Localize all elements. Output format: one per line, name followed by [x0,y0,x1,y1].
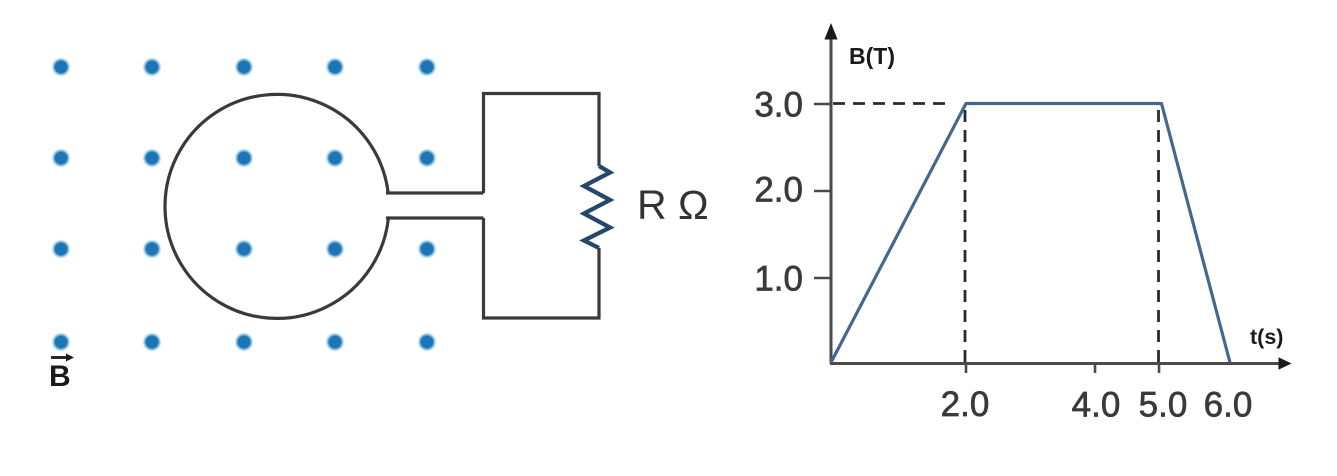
resistor R (zigzag) [584,166,610,248]
y-axis tick 3.0 [814,103,832,106]
y-axis label 2.0 [754,171,803,210]
x-axis label 5.0 [1139,386,1188,425]
axis title B(T) [849,43,895,69]
B-field dots, row 4 [51,332,437,352]
y-axis (B axis) [824,23,837,364]
svg-text:2.0: 2.0 [754,171,803,210]
svg-text:1.0: 1.0 [754,260,803,299]
B-field dots (field out of page), row 1 [51,57,437,77]
x-axis label 4.0 [1072,386,1121,425]
axis title t(s) [1250,325,1283,349]
svg-text:B: B [49,360,71,393]
x-axis tick 4.0 [1094,363,1097,373]
x-axis tick 2.0 [965,363,968,373]
x-axis tick 5.0 [1158,363,1161,373]
svg-text:2.0: 2.0 [941,385,990,424]
svg-text:6.0: 6.0 [1204,386,1253,425]
label vector B (magnetic field) [49,354,74,394]
label R Ω (resistor value) [637,182,709,229]
B(t) curve (trapezoid waveform) [831,104,1230,363]
svg-text:5.0: 5.0 [1139,386,1188,425]
y-axis label 1.0 [754,260,803,299]
x-axis label 6.0 [1204,386,1253,425]
svg-text:t(s): t(s) [1250,325,1283,349]
dashed guide line at B=3.0 [833,102,952,105]
wire: lower neck from loop to rectangle [386,216,484,219]
svg-text:3.0: 3.0 [754,86,803,125]
wire: upper neck from loop to rectangle [386,191,484,194]
B-field dots, row 2 [51,148,437,168]
svg-text:R: R [637,182,667,228]
wire: lower half of circuit rectangle [484,218,600,318]
y-axis tick 1.0 [814,277,832,280]
wire: upper half of circuit rectangle [484,94,600,194]
svg-text:B(T): B(T) [849,43,895,69]
svg-text:4.0: 4.0 [1072,386,1121,425]
circular conducting loop (open on right) [165,94,388,318]
svg-text:Ω: Ω [678,182,709,228]
y-axis tick 2.0 [814,190,832,193]
B-field dots, row 3 [51,239,437,259]
x-axis label 2.0 [941,385,990,424]
dashed guide line at t=5.0 [1157,110,1160,362]
x-axis (t axis) [830,357,1292,370]
y-axis label 3.0 [754,86,803,125]
dashed guide line at t=2.0 [964,110,967,362]
